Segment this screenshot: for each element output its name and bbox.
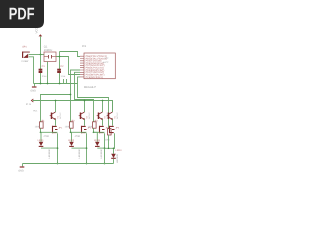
crystal Q1 — [44, 45, 56, 61]
svg-text:BC547: BC547 — [116, 111, 119, 118]
svg-text:AVCC: AVCC — [103, 61, 109, 64]
wire collector column c2 — [84, 101, 86, 113]
wire collector column c3 — [102, 101, 104, 113]
LED1 — [38, 139, 52, 158]
svg-text:LED2: LED2 — [68, 139, 75, 142]
connector JP1 — [53, 126, 63, 133]
capacitor C1 — [39, 65, 47, 78]
svg-text:BC547: BC547 — [88, 111, 91, 118]
white page background — [0, 0, 149, 198]
supply symbol VCC — [34, 26, 42, 36]
wire feed cell4 — [78, 77, 109, 129]
svg-text:LED4: LED4 — [116, 149, 123, 152]
wire speaker pin2 down — [29, 57, 34, 84]
svg-text:IC1: IC1 — [82, 44, 87, 48]
wire feed cell3 — [75, 72, 94, 122]
svg-text:LED5MM: LED5MM — [78, 149, 81, 158]
wire LED drop c2 — [71, 132, 72, 141]
wire connector to drop c1 — [57, 133, 59, 163]
connector JP2 — [82, 126, 92, 133]
wire LED cathode link c3 — [97, 147, 104, 149]
base resistor R3 — [88, 120, 99, 129]
wire transistor to connector c3 — [102, 120, 104, 126]
transistor T1 — [50, 111, 62, 119]
ground symbol bottom — [18, 164, 24, 173]
link rail c2 — [71, 131, 87, 133]
node junction cap1/bus — [40, 83, 42, 85]
capacitor C2 — [57, 65, 66, 78]
wire feed cell1/cell2 — [41, 70, 81, 122]
PDF badge — [0, 0, 44, 28]
svg-text:BC547: BC547 — [59, 111, 62, 118]
PDF badge text — [10, 8, 35, 20]
svg-text:VCC: VCC — [104, 57, 109, 60]
svg-text:LED5MM: LED5MM — [48, 149, 51, 158]
wire transistor to connector c4 — [112, 120, 114, 126]
wire connector to drop c2 — [86, 133, 88, 163]
node VCC rail arrow — [31, 99, 33, 102]
wire collector column c4 — [112, 101, 114, 113]
svg-text:LED3: LED3 — [94, 139, 101, 142]
transistor T3 — [97, 111, 109, 119]
node junction VCC/speaker — [40, 54, 42, 56]
transistor T2 — [79, 111, 91, 119]
link rail c3 — [94, 131, 105, 133]
svg-text:LED5MM: LED5MM — [100, 149, 103, 158]
wire crystal right to IC pin XTAL1 — [56, 57, 80, 75]
base resistor R2 — [65, 120, 76, 129]
wire cap1 column — [40, 55, 42, 84]
IC pin stubs left — [80, 56, 84, 77]
wire LED cathode link c1 — [41, 147, 58, 149]
wire resistor down to link c3 — [93, 128, 95, 132]
svg-text:470R: 470R — [75, 135, 81, 138]
wire connector to drop c3 — [104, 133, 106, 163]
svg-text:LED1: LED1 — [38, 139, 45, 142]
node junction crystal/cap2 — [59, 56, 61, 58]
wire VCC rail — [33, 101, 113, 112]
svg-text:1.5u: 1.5u — [61, 75, 66, 78]
IC U1 box — [82, 44, 116, 89]
ground symbol GND mid — [30, 84, 36, 93]
wire IC gnd pin drops — [64, 79, 67, 84]
node junction feed1 — [70, 94, 72, 96]
LED3 — [94, 139, 103, 158]
node junction cap2/bus — [59, 83, 61, 85]
wire resistor down to link c4 — [108, 135, 110, 148]
wire cap2 top to IC pin XTAL2 — [60, 52, 81, 57]
link rail c1 — [41, 131, 58, 133]
svg-text:16MHz: 16MHz — [44, 49, 53, 52]
connector JP3 — [100, 126, 110, 133]
svg-text:SP1: SP1 — [22, 46, 27, 49]
wire LED drop c1 — [40, 132, 43, 141]
wire speaker to crystal — [29, 54, 44, 56]
wire resistor down to link c1 — [40, 128, 42, 132]
connector JP4 — [110, 126, 120, 133]
wire cap2 column — [59, 52, 61, 84]
svg-text:IC G: IC G — [26, 103, 31, 106]
base resistor R1 — [35, 120, 46, 129]
svg-text:LED5MM: LED5MM — [116, 154, 119, 163]
IC pin name texts — [86, 55, 107, 79]
wire LED cathode link c2 — [72, 147, 87, 149]
link rail c4 — [105, 147, 115, 149]
wire collector column c1 — [55, 101, 57, 113]
svg-text:MEGA8-P: MEGA8-P — [84, 86, 96, 89]
LED4 — [111, 149, 122, 163]
svg-text:0.08W: 0.08W — [21, 60, 29, 63]
wire connector down c4 — [114, 133, 115, 154]
base resistor R4 — [105, 129, 111, 142]
wire resistor down to link c2 — [70, 128, 72, 132]
wire crystal bottom pin to gnd bus — [47, 62, 49, 84]
wire transistor to connector c2 — [84, 120, 86, 126]
wire bottom rail — [23, 163, 114, 165]
speaker SP1 — [21, 46, 29, 64]
gnd bus wire — [34, 83, 78, 85]
node junction crystal/bus — [47, 83, 49, 85]
svg-text:100k: 100k — [65, 126, 71, 129]
svg-text:100k: 100k — [35, 126, 41, 129]
svg-text:PC6(ADC5/SCL): PC6(ADC5/SCL) — [86, 76, 104, 79]
svg-text:100k: 100k — [105, 138, 111, 141]
svg-text:1.5u: 1.5u — [42, 75, 47, 78]
svg-text:GND: GND — [18, 170, 24, 173]
wire LED to bottom rail c4 — [113, 159, 115, 164]
transistor T4 — [107, 111, 119, 119]
LED2 — [68, 139, 81, 158]
wire transistor to connector c1 — [55, 120, 57, 126]
svg-text:100k: 100k — [88, 126, 94, 129]
svg-text:GND: GND — [30, 90, 36, 93]
wire LED drop c3 — [94, 132, 98, 141]
wire VCC vertical — [40, 36, 42, 54]
svg-text:470R: 470R — [43, 135, 49, 138]
